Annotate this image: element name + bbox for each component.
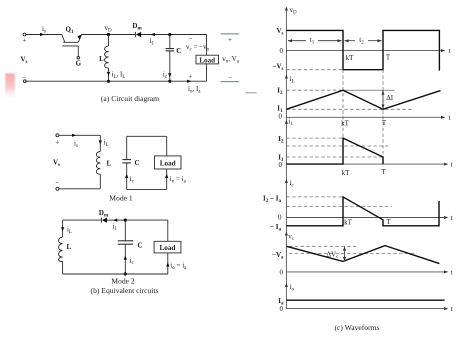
svg-text:vD: vD [104,24,112,34]
dashed vertical kT [342,70,344,164]
vD waveform [286,30,439,70]
wire diode to corner mode2 [107,219,168,221]
panel5 t axis [286,271,446,273]
panel1 axis arrow [285,7,288,11]
bottom rail [25,80,207,82]
arrow io mode1 up [165,174,168,178]
svg-text:−: − [189,35,193,43]
svg-text:C: C [138,242,143,250]
arrow iL mode2 [61,227,64,231]
terminal + mode1 [56,134,59,137]
svg-text:Q1: Q1 [66,26,74,36]
svg-text:t: t [451,161,453,169]
panel1 t arrow [441,49,445,52]
svg-text:io: io [290,283,295,293]
iL waveform [286,90,440,109]
svg-text:T: T [386,218,391,226]
svg-text:0: 0 [278,213,282,221]
svg-text:ΔI: ΔI [386,94,394,102]
svg-text:I2: I2 [277,87,283,97]
diode Dm [135,32,141,37]
panel3 axis arrow [285,120,288,124]
svg-text:L: L [99,55,104,63]
dashed top level p4 [286,196,343,198]
arrow is mode1 [72,134,77,137]
node cap bottom mode2 [124,272,127,275]
svg-text:0: 0 [279,113,283,121]
arrow iL [107,72,110,76]
svg-text:t: t [451,268,453,276]
svg-text:i1: i1 [150,37,155,47]
transistor Q1 [62,35,82,60]
panel6 axis arrow [285,283,288,287]
panel5 axis arrow [285,232,288,236]
svg-text:−: − [228,74,232,82]
arrow i1 [150,33,155,36]
svg-text:+: + [23,37,27,45]
dashed -Vs level [286,69,343,71]
arrow is [40,33,45,36]
i1 waveform [286,138,383,164]
wire top mode1 [59,134,100,136]
arrow iL mode1 [99,140,102,144]
svg-text:0: 0 [280,47,284,55]
node cap top mode2 [124,219,127,222]
cap loop mode1 [122,136,166,189]
panel2 t axis [286,116,443,118]
node cap top [168,33,171,36]
dashed avg level p3 [286,145,390,147]
dashed I2 level p3 [286,137,343,139]
load branch mode2 [167,220,169,274]
svg-text:io, Ia: io, Ia [188,85,201,95]
svg-text:T: T [381,168,386,176]
dashed I1 level p3 [286,156,383,158]
svg-text:0: 0 [280,305,284,313]
t1 span arrows [288,39,342,42]
panel6 t axis [286,308,446,310]
wire bottom mode1 [59,188,100,190]
svg-text:+: + [55,139,59,147]
dashed avg level p4 [286,206,392,208]
panel4 t arrow [444,216,448,219]
svg-text:is: is [74,140,78,150]
svg-text:is: is [42,25,46,35]
svg-text:Vs: Vs [53,159,60,169]
arrow ic mode1 up [125,174,128,178]
load branch wire [206,35,208,82]
stray dash mark [245,92,256,94]
svg-text:io = ia: io = ia [170,175,187,185]
arrow i1 mode2 [113,219,118,222]
arrow ic mode2 up [124,256,127,260]
svg-text:(a) Circuit diagram: (a) Circuit diagram [101,94,159,103]
dashed I2 level p2 [286,89,343,91]
svg-text:iL: iL [290,75,295,85]
svg-text:kT: kT [342,169,351,177]
diode Dm mode2 [102,218,108,223]
node inductor bottom [107,80,110,83]
svg-text:t: t [451,214,453,222]
svg-text:Dm: Dm [132,22,142,32]
svg-text:−Vs: −Vs [273,62,284,72]
svg-text:Load: Load [160,159,176,167]
svg-text:+: + [228,36,232,44]
svg-text:Mode 1: Mode 1 [109,194,133,203]
svg-text:0: 0 [280,268,284,276]
io waveform [286,299,444,301]
svg-text:−Va: −Va [272,251,284,261]
svg-text:io = ia: io = ia [170,262,187,272]
load box mode2 [154,241,181,253]
dashed top level p5 [289,245,357,247]
panel2 axis arrow [285,75,288,79]
svg-text:Load: Load [199,57,215,65]
svg-text:L: L [107,160,112,168]
load box mode1 [155,156,182,169]
svg-text:ic: ic [130,257,135,267]
panel4 axis arrow [285,179,288,183]
svg-text:Dm: Dm [99,209,109,219]
dashed -Va level p5 [289,253,415,255]
deltaVc arrow [343,246,346,261]
svg-text:Mode 2: Mode 2 [111,277,135,286]
svg-text:(c) Waveforms: (c) Waveforms [334,323,379,332]
terminal - mode1 [56,187,59,190]
svg-text:iL: iL [67,226,72,236]
wire top mode2 left [63,219,102,221]
panel4 t axis [286,217,446,219]
output polarity plus line [221,33,240,35]
svg-text:Vs: Vs [276,27,283,37]
capacitor C [166,35,174,80]
arrow ic [168,73,171,77]
svg-text:0: 0 [279,161,283,169]
svg-text:ic: ic [130,175,135,185]
svg-text:L: L [67,243,72,251]
svg-text:− Ia: − Ia [270,223,281,233]
panel6 t arrow [444,307,448,310]
dashed I1 level p2 [286,108,413,110]
pink highlighter smudge [5,74,15,100]
svg-text:I2 − Ia: I2 − Ia [263,194,281,204]
svg-text:vc: vc [288,232,295,242]
svg-text:iL, IL: iL, IL [112,71,126,81]
svg-text:(b) Equivalent circuits: (b) Equivalent circuits [91,286,159,295]
svg-text:Vs: Vs [20,56,27,66]
deltaI arrow [382,90,385,109]
inductor L mode1 [96,135,100,189]
svg-text:I2: I2 [278,135,284,145]
svg-text:−: − [55,179,59,187]
node vD [107,33,110,36]
svg-text:t: t [449,114,451,122]
arrow io mode2 up [166,262,169,266]
main vertical axis [285,8,287,309]
wire Q1 to diode [82,34,136,36]
ic waveform [286,197,439,226]
panel5 t arrow [444,270,448,273]
svg-text:kT: kT [341,120,350,128]
svg-text:vo, Va: vo, Va [222,55,239,65]
terminal - (bottom-left source terminal) [23,80,26,83]
panel3 t arrow [444,163,448,166]
svg-text:iL: iL [104,139,109,149]
wire top-left to Q1 [26,34,62,36]
svg-text:i1: i1 [288,118,293,128]
dashed vertical T [382,70,384,157]
svg-text:ic: ic [290,179,295,189]
arrow io [187,80,192,83]
panel2 t arrow [441,116,445,119]
svg-text:t: t [449,47,451,55]
output polarity minus line [221,81,240,83]
svg-text:G: G [76,59,82,67]
svg-text:+: + [189,73,193,81]
wire diode to load corner [141,34,206,36]
vc waveform [286,246,439,264]
panel3 t axis [286,163,446,165]
svg-text:kT: kT [344,219,353,227]
svg-text:t: t [451,305,453,313]
svg-text:T: T [382,119,387,127]
svg-text:kT: kT [346,54,355,62]
svg-text:t1: t1 [310,36,315,46]
load box [196,55,219,64]
t2 span arrows [344,39,382,42]
panel1 t axis [286,50,443,52]
svg-text:t2: t2 [359,36,364,46]
I2 reference line p2 [343,89,395,91]
capacitor C mode2 [118,220,133,274]
svg-text:C: C [135,159,140,167]
bottom rail mode2 [63,273,168,275]
node cap bottom [168,80,171,83]
terminal + (top-left source terminal) [23,33,26,36]
svg-text:T: T [386,54,391,62]
inductor branch mode2 [59,220,63,274]
svg-text:C: C [176,47,181,55]
svg-text:Load: Load [160,244,176,252]
svg-text:vD: vD [290,6,298,16]
svg-text:i1: i1 [113,223,118,233]
inductor L [105,35,109,80]
svg-text:ic: ic [163,70,168,80]
